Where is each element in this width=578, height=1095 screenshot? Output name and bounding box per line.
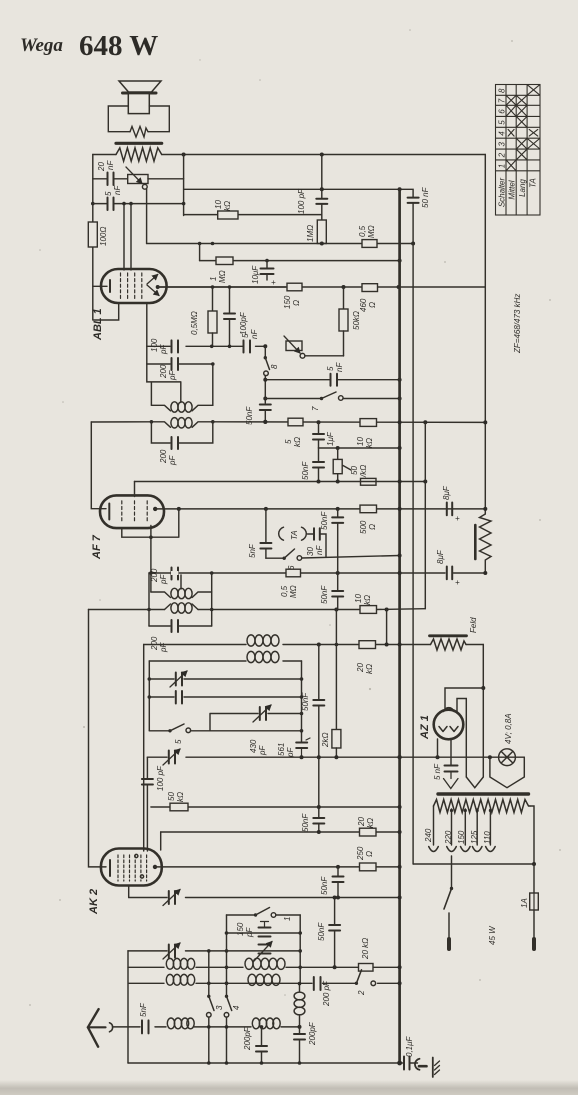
capacitor 5nF (AZ1)	[445, 766, 458, 772]
lamp winding V	[490, 757, 524, 788]
tube AK2 label	[88, 889, 100, 915]
node at x322 y154	[320, 153, 324, 157]
svg-text:200: 200	[159, 364, 168, 379]
variable cap (cathode row)	[169, 891, 175, 904]
capacitor 200pF IF1	[172, 358, 179, 370]
mains cord end left	[447, 939, 451, 949]
wire cathode row y897.5	[129, 897, 400, 899]
svg-text:10: 10	[354, 594, 363, 603]
svg-text:Ω: Ω	[292, 300, 301, 306]
wire anode row y287	[158, 286, 486, 288]
capacitor 100pF top	[321, 155, 323, 199]
wire 5nF row y379.7	[265, 379, 399, 381]
wire TA row y558	[266, 556, 400, 559]
svg-text:1: 1	[283, 917, 292, 921]
capacitor 5nF (to switch 8)	[244, 340, 251, 352]
wire HT right leg x483.3	[482, 645, 484, 778]
switch 1 rung y915	[227, 914, 301, 916]
wire diode row y260.6	[200, 260, 400, 262]
IF2 secondary coil on y609.5	[165, 604, 171, 610]
bandswitch box verticals	[227, 915, 301, 984]
svg-text:+: +	[271, 278, 276, 287]
svg-text:45 W: 45 W	[488, 925, 497, 945]
note ZF=468/473 kHz	[513, 294, 522, 354]
tube AK2 cathode	[109, 860, 111, 876]
svg-text:kΩ: kΩ	[363, 595, 372, 605]
switch table frame	[496, 85, 541, 216]
wire y713.5 with 430pF	[210, 714, 302, 731]
power transformer core	[438, 792, 529, 795]
resistor 500 Ohm	[360, 505, 377, 513]
svg-text:MΩ: MΩ	[218, 270, 227, 283]
output transformer core	[116, 142, 162, 145]
svg-text:pF: pF	[159, 344, 168, 355]
resistor 2 kOhm	[335, 610, 337, 730]
svg-text:100pF: 100pF	[239, 311, 248, 335]
capacitor 200pF IF2 bottom	[172, 620, 179, 632]
wire osc row2 y661	[149, 660, 301, 662]
svg-text:200pF: 200pF	[308, 1021, 317, 1046]
capacitor 50nF (cathode)	[318, 448, 320, 462]
bus vertical x399.6 (chassis)	[398, 189, 401, 1063]
tube AF7 label	[91, 534, 103, 560]
svg-text:10: 10	[214, 200, 223, 209]
wire AF7 grid cap lead	[134, 482, 136, 497]
wire AF7 grid row y481.5	[135, 481, 426, 483]
resistor 150 Ohm	[287, 283, 302, 291]
resistor 20 kOhm	[360, 828, 377, 836]
svg-text:5: 5	[104, 191, 113, 196]
svg-text:1MΩ: 1MΩ	[306, 225, 315, 242]
wire y950.9 left	[128, 950, 227, 952]
resistor 10 kOhm (osc)	[360, 606, 377, 614]
svg-text:kΩ: kΩ	[223, 201, 232, 211]
capacitor 100pF (AVC)	[229, 287, 231, 313]
capacitor 50nF (screen bypass)	[318, 757, 320, 817]
svg-text:3: 3	[215, 1005, 224, 1010]
tap 240	[433, 806, 435, 845]
wire grid taps into ABL1	[124, 204, 131, 270]
tube ABL1 envelope	[101, 269, 167, 303]
coil MW ant left	[166, 974, 173, 985]
switch 5 and wire y730.8	[149, 730, 301, 732]
svg-text:pF: pF	[168, 455, 177, 466]
svg-text:AF 7: AF 7	[91, 534, 103, 560]
wire 10k row y215.5	[184, 214, 322, 216]
choke core bar	[474, 525, 477, 559]
variable cap (osc grid row)	[169, 945, 175, 958]
svg-text:nF: nF	[315, 545, 324, 555]
tube ABL1 grids dashed	[121, 273, 142, 300]
svg-text:5: 5	[241, 333, 250, 338]
tube AK2 grids dashed	[118, 855, 147, 881]
wire screen row y189.3	[184, 189, 414, 197]
svg-text:Schalter: Schalter	[497, 177, 506, 207]
ground symbol	[433, 1058, 440, 1078]
capacitor 10uF electrolytic	[266, 261, 268, 268]
capacitor 5nF (AVC switch row)	[331, 374, 338, 386]
resistor 5 kOhm	[288, 418, 303, 426]
wire AF7 plate row y509	[155, 508, 485, 510]
svg-text:10μF: 10μF	[251, 265, 260, 284]
svg-text:5nF: 5nF	[139, 1002, 148, 1017]
tube AK2 plate	[153, 865, 157, 869]
switch 8	[264, 346, 266, 357]
svg-text:ZF=468/473 kHz: ZF=468/473 kHz	[513, 294, 522, 354]
coil osc row2	[247, 651, 255, 662]
capacitor 50nF (screen to grid)	[337, 573, 339, 591]
svg-text:pF: pF	[286, 747, 295, 758]
svg-text:AK 2: AK 2	[88, 889, 100, 915]
svg-text:nF: nF	[106, 160, 115, 170]
tube AF7 cathode	[108, 504, 110, 520]
capacitor 200pF (series LW)	[314, 977, 321, 990]
coil LW osc right	[245, 958, 253, 969]
IF2 primary coil	[151, 592, 171, 598]
voice coil resistor	[130, 127, 148, 138]
svg-text:Ω: Ω	[368, 524, 377, 530]
variable cap in HT row	[169, 751, 175, 764]
resistor 250 Ohm	[360, 863, 377, 871]
coil MW osc left	[166, 958, 173, 969]
capacitor 8uF upper	[447, 503, 452, 516]
node x183.6 y203.6	[182, 202, 186, 206]
svg-text:kΩ: kΩ	[366, 818, 375, 828]
wire left rail x128	[127, 951, 129, 1063]
right rail x301.5	[301, 661, 303, 741]
tube ABL1 anode arrows	[147, 275, 158, 285]
svg-text:460: 460	[359, 298, 368, 312]
svg-text:5nF: 5nF	[248, 543, 257, 558]
wire AF7 plate leg down	[150, 526, 152, 593]
wire AK2 top leg from y832	[160, 832, 162, 850]
capacitor 200pF antenna shunt	[260, 1025, 264, 1029]
wire coil row y983.3	[129, 982, 400, 984]
resistor 20 kOhm (osc grid)	[359, 964, 374, 972]
svg-text:1μF: 1μF	[326, 431, 335, 446]
wire AZ1 anode feed	[445, 688, 483, 710]
svg-text:20 kΩ: 20 kΩ	[361, 938, 370, 960]
svg-text:648 W: 648 W	[79, 30, 158, 62]
svg-text:8: 8	[270, 364, 279, 369]
tap 110	[489, 809, 491, 845]
svg-text:Mittel: Mittel	[508, 180, 517, 199]
wire AZ1 second anode	[457, 699, 466, 778]
mains vertical x413.1	[412, 244, 414, 865]
tube AF7 plate	[153, 507, 157, 511]
resistor 50 kOhm vertical with callout	[337, 448, 339, 459]
wire vertical x183.6	[183, 155, 185, 216]
resistor 100 ohm	[88, 222, 97, 247]
IF1 primary coil	[151, 405, 170, 411]
capacitor 561pF trimmer	[296, 743, 307, 749]
heater winding V (AZ1)	[466, 777, 483, 788]
tube AK2 envelope	[101, 849, 162, 886]
svg-text:6: 6	[497, 109, 506, 114]
svg-text:7: 7	[311, 406, 320, 411]
svg-text:5: 5	[326, 366, 335, 371]
resistor 50 kOhm (osc screen)	[170, 803, 188, 811]
loudspeaker frame box	[108, 106, 169, 132]
svg-text:nF: nF	[335, 362, 344, 372]
tube AK2 electrode dots	[135, 854, 138, 857]
coil osc row1	[247, 635, 255, 646]
tube ABL1 label	[92, 308, 104, 341]
resistor 0.5M horizontal	[362, 240, 377, 248]
loudspeaker neck	[128, 94, 149, 114]
capacitor 5nF	[108, 198, 114, 211]
svg-text:20: 20	[357, 817, 366, 827]
wire screen-grid row y807	[151, 806, 400, 808]
node x92.8 y203.6	[91, 202, 95, 206]
svg-text:220: 220	[444, 830, 453, 845]
wire osc coil leg to AK2 grid	[143, 645, 145, 852]
svg-text:200: 200	[150, 568, 159, 583]
svg-text:30: 30	[306, 547, 315, 556]
tube AZ1 envelope	[434, 710, 464, 740]
wire left vertical x92.8	[93, 155, 119, 321]
coil antenna LW	[252, 1018, 259, 1029]
svg-text:20: 20	[97, 162, 106, 172]
TA input jack	[279, 527, 284, 540]
svg-text:2kΩ: 2kΩ	[321, 732, 330, 748]
wire osc grid leg with 100pF	[146, 757, 148, 778]
capacitor 0.1uF	[404, 1057, 410, 1070]
node at x183.6 y154	[182, 153, 186, 157]
capacitor 30nF	[314, 528, 320, 540]
svg-text:125: 125	[470, 830, 479, 844]
svg-text:2: 2	[357, 990, 366, 996]
tap 150	[464, 809, 466, 845]
svg-text:50kΩ: 50kΩ	[352, 311, 361, 330]
resistor 1M vertical	[317, 220, 326, 244]
svg-text:TA: TA	[290, 530, 299, 540]
output transformer primary winding	[116, 148, 162, 161]
svg-text:4: 4	[232, 1005, 241, 1010]
coil LW ant right	[248, 974, 256, 985]
wire y448	[319, 447, 400, 449]
fuse 1A	[533, 864, 535, 893]
tap 220	[451, 809, 453, 845]
label 45W	[488, 925, 497, 945]
svg-text:100Ω: 100Ω	[99, 227, 108, 246]
svg-text:8μF: 8μF	[442, 485, 451, 500]
wire AVC row y243.5	[147, 243, 414, 245]
svg-text:nF: nF	[250, 329, 259, 339]
resistor 0.5M vertical (diode load)	[212, 287, 214, 311]
svg-text:200: 200	[150, 636, 159, 651]
svg-text:5: 5	[497, 120, 506, 125]
svg-text:3: 3	[497, 142, 506, 147]
svg-text:0,5: 0,5	[358, 225, 367, 237]
svg-text:nF: nF	[113, 185, 122, 195]
coil antenna MW	[167, 1018, 174, 1029]
svg-text:4V; 0,8A: 4V; 0,8A	[504, 713, 513, 744]
capacitor 5nF antenna	[142, 1020, 149, 1033]
capacitor 50nF (osc cathode)	[334, 898, 336, 925]
svg-text:50nF: 50nF	[320, 876, 329, 895]
svg-text:kΩ: kΩ	[365, 664, 374, 674]
svg-text:5: 5	[174, 739, 183, 744]
wire IF1 top row y346.3	[147, 345, 265, 347]
svg-text:ABL 1: ABL 1	[92, 308, 104, 341]
svg-text:2: 2	[497, 152, 506, 158]
wire AK2 plate row y866.9	[155, 866, 400, 868]
svg-text:7: 7	[497, 98, 506, 103]
wire jog x199.6	[199, 244, 201, 261]
resistor 10 kOhm	[218, 211, 238, 219]
svg-text:500: 500	[359, 520, 368, 534]
wire AK2 grid row y609.5	[89, 608, 426, 611]
tube AF7 grids dashed	[122, 501, 147, 523]
svg-text:0,5MΩ: 0,5MΩ	[190, 311, 199, 335]
svg-text:561: 561	[277, 743, 286, 756]
capacitor 8uF lower	[447, 567, 452, 580]
switch 7	[265, 398, 399, 400]
capacitor 50nF top right	[408, 198, 419, 203]
wire screen row y573	[149, 572, 485, 574]
svg-text:250: 250	[356, 846, 365, 861]
svg-text:110: 110	[483, 831, 492, 844]
capacitor 20nF	[108, 173, 114, 186]
svg-text:1: 1	[497, 164, 506, 168]
capacitor 200pF IF2 top	[172, 568, 179, 580]
svg-text:Ω: Ω	[365, 851, 374, 857]
IF1 secondary tuning cap 200pF	[151, 422, 212, 443]
capacitor 50nF (screen)	[337, 509, 339, 517]
tube ABL1 cathode	[109, 280, 111, 292]
svg-text:50nF: 50nF	[301, 461, 310, 480]
svg-text:10: 10	[356, 437, 365, 446]
svg-text:50nF: 50nF	[320, 511, 329, 530]
coil vertical (LW series)	[299, 984, 301, 992]
svg-text:50nF: 50nF	[301, 692, 310, 711]
resistor 0.5M (IF2)	[286, 569, 301, 577]
svg-text:Wega: Wega	[20, 35, 63, 56]
wire ground row y1063	[128, 1062, 418, 1064]
svg-text:150: 150	[457, 830, 466, 844]
capacitor 50nF (osc)	[318, 645, 320, 700]
svg-text:pF: pF	[159, 574, 168, 585]
resistor 50k vertical with volume pot	[343, 287, 345, 309]
switch 2	[355, 982, 358, 985]
svg-text:8μF: 8μF	[436, 549, 445, 564]
svg-text:Feld: Feld	[469, 617, 478, 633]
resistor 10 kOhm (grid row)	[360, 419, 377, 427]
table X marks	[507, 85, 540, 170]
capacitor 50nF (switch8 leg)	[260, 405, 271, 411]
svg-text:50: 50	[167, 792, 176, 801]
svg-text:+: +	[455, 514, 460, 523]
dial lamp	[499, 749, 516, 766]
wire grid row y422.6	[91, 421, 485, 424]
switch 4 vertical	[225, 995, 228, 998]
resistor 460 Ohm	[362, 284, 378, 292]
svg-text:50nF: 50nF	[320, 585, 329, 604]
capacitor 5nF (TA branch)	[265, 509, 267, 543]
tube AZ1 filament marks	[439, 727, 458, 732]
resistor on AVC row	[361, 478, 377, 485]
svg-text:kΩ: kΩ	[293, 437, 302, 447]
capacitor 200pF (below coil)	[299, 1027, 301, 1034]
wire osc anode row y644.5	[144, 644, 484, 646]
resistor 20 kOhm (osc)	[359, 641, 376, 649]
svg-text:pF: pF	[159, 642, 168, 653]
svg-text:0,5: 0,5	[280, 585, 289, 597]
trimmer rung y933	[227, 932, 301, 934]
svg-text:200 pF: 200 pF	[322, 980, 331, 1007]
wire AF7 screen loop	[122, 509, 179, 537]
svg-text:MΩ: MΩ	[289, 585, 298, 598]
svg-text:150: 150	[283, 295, 292, 309]
title Wega 648 W	[20, 30, 158, 62]
vertical x425.3	[424, 422, 426, 608]
wire AZ1 filament legs	[438, 739, 452, 766]
power transformer primary	[434, 800, 531, 813]
wire coil row y967.3	[128, 966, 400, 968]
svg-text:pF: pF	[168, 370, 177, 381]
resistor 1 MOhm horizontal	[216, 257, 233, 265]
mains switch	[451, 856, 453, 887]
IF2 primary tap	[180, 575, 182, 589]
wire ABL1 bottom legs	[146, 303, 148, 346]
wire AK2 cathode leg	[128, 886, 130, 898]
svg-text:AZ 1: AZ 1	[419, 715, 431, 740]
svg-text:0,1μF: 0,1μF	[405, 1035, 414, 1057]
antenna symbol	[88, 1009, 99, 1047]
wire antenna row y1026.9	[113, 1026, 300, 1028]
svg-text:1: 1	[209, 277, 218, 281]
loudspeaker cone	[119, 81, 161, 93]
svg-text:5 nF: 5 nF	[433, 763, 442, 780]
switch 3 vertical	[208, 951, 210, 996]
wire y697 with cap	[149, 696, 301, 698]
wire HT row y757.2	[147, 756, 524, 758]
wire AF7 left stub	[91, 422, 106, 509]
IF2 box sides	[149, 573, 212, 626]
svg-text:430: 430	[249, 739, 258, 753]
svg-text:+: +	[455, 578, 460, 587]
svg-text:kΩ: kΩ	[365, 438, 374, 448]
svg-text:Ω: Ω	[368, 302, 377, 308]
wire wiper to AVC	[146, 189, 148, 243]
table header labels	[497, 177, 537, 207]
svg-text:100 pF: 100 pF	[297, 188, 306, 214]
wire anode line y154	[93, 154, 486, 156]
wire mains row y864	[413, 806, 534, 864]
svg-text:150: 150	[236, 922, 245, 936]
potentiometer (volume)	[286, 341, 302, 351]
wire left rail to AK2	[89, 610, 107, 867]
table row numbers	[497, 88, 506, 168]
svg-text:kΩ: kΩ	[176, 792, 185, 802]
svg-text:100 pF: 100 pF	[156, 765, 165, 791]
earth connector arc	[415, 1059, 420, 1070]
potentiometer (tone) with wiper	[128, 175, 148, 184]
switch 6	[283, 557, 286, 560]
svg-text:1A: 1A	[520, 898, 529, 908]
svg-text:50 nF: 50 nF	[421, 186, 430, 208]
IF1 secondary coil on y422	[151, 422, 170, 428]
speaker field coil Feld	[430, 634, 467, 637]
svg-text:5: 5	[284, 439, 293, 444]
svg-text:20: 20	[356, 663, 365, 673]
svg-text:50nF: 50nF	[301, 813, 310, 832]
capacitor 1uF	[318, 422, 320, 433]
tube AF7 envelope	[100, 495, 164, 528]
choke winding	[480, 514, 492, 573]
wire grid4 row y832	[161, 831, 400, 833]
